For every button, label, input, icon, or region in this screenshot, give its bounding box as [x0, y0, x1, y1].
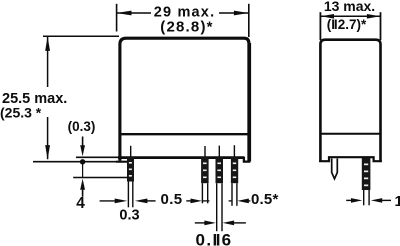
terminal pin 1 (hatched) — [127, 157, 134, 182]
label 13 max. — [324, 0, 375, 14]
side view right terminal (hatched) — [362, 158, 371, 190]
label 25.5 max. — [0, 87, 69, 117]
terminal-end extension line B — [73, 177, 128, 179]
dimension 0.3: right arrow at pin 1 — [135, 199, 156, 204]
dimension 1: right arrow at side terminal — [371, 198, 391, 203]
svg-text:1: 1 — [395, 193, 400, 210]
terminal pin 3 tip edges (long, to 0.16 dimension) — [217, 183, 222, 231]
dimension 25.5 max: vertical dimension line with arrowheads — [45, 36, 50, 159]
terminal pin 1 top line inside base — [130, 146, 132, 157]
terminal pin 4 (hatched) — [231, 157, 238, 183]
dimension 13 max: left extension line — [319, 12, 321, 40]
dimension 4: line from seating plane to terminal-end line — [82, 162, 84, 178]
label 29 max. — [151, 4, 219, 20]
terminal pin 4 tip edges — [232, 183, 237, 206]
svg-text:0.5*: 0.5* — [251, 191, 279, 208]
dimension 0.5*: left-pointing arrow at pin 4 — [229, 199, 251, 204]
dimension 0.16: left arrow at pin 3 tip — [195, 221, 216, 226]
svg-text:(II2.7)*: (II2.7)* — [327, 17, 367, 32]
label 0.16 — [196, 231, 233, 246]
label (0.3) — [68, 119, 96, 134]
relay body front view right edge overdraw — [249, 43, 251, 162]
dimension 13 max: dimension line with arrowheads — [321, 14, 380, 19]
terminal pin 3 (hatched, centre) — [216, 157, 224, 183]
dimension 1: left arrow at side terminal — [346, 198, 362, 203]
side view seam line — [321, 133, 380, 135]
svg-text:4: 4 — [76, 195, 85, 212]
dimension 25.5 max: top extension line — [43, 35, 119, 37]
label (25.3 * — [0, 105, 42, 121]
label 0.3 — [119, 208, 139, 224]
relay body front view outline — [120, 38, 249, 161]
terminal pin 4 top line inside base — [233, 145, 235, 157]
label 1 — [395, 193, 400, 210]
label (12.7)* — [327, 17, 367, 32]
label 0.5 — [160, 191, 182, 208]
dimension 0.16: right arrow at pin 3 tip — [223, 221, 246, 226]
svg-text:0.II6: 0.II6 — [196, 231, 233, 246]
svg-text:(25.3 *: (25.3 * — [0, 105, 42, 121]
dimension 4: junction dot on seating plane — [80, 159, 85, 164]
side view bottom with feet steps — [319, 157, 382, 161]
dimension 29 max: right extension line — [248, 4, 250, 37]
svg-text:13 max.: 13 max. — [324, 0, 375, 14]
label 0.5* — [251, 191, 279, 208]
case bottom line front view (extended left as extension line) — [76, 156, 245, 158]
seating plane / left foot line front view — [33, 161, 128, 163]
dimension 13 max: right extension line — [380, 12, 382, 40]
case/base seam line front view — [121, 133, 247, 135]
side view relay body outline — [319, 12, 382, 162]
side view left terminal (outline, pointed tip) — [332, 159, 338, 179]
terminal pin 3 top line inside base — [218, 146, 220, 157]
side view right terminal tip edges — [364, 190, 369, 205]
svg-text:0.3: 0.3 — [119, 208, 139, 224]
dimension 0.3: left arrow at pin 1 — [100, 199, 128, 204]
dimension 29 max: dimension line with arrowheads — [117, 11, 248, 16]
svg-text:0.5: 0.5 — [160, 191, 182, 208]
right foot step front view — [244, 157, 250, 162]
terminal pin 2 top line inside base — [204, 146, 206, 157]
dimension 0.5: right-pointing arrow at pin 2 — [186, 199, 209, 204]
label 4 — [76, 195, 85, 212]
svg-text:(0.3): (0.3) — [68, 119, 96, 134]
dimension 4: up arrow below terminal-end line — [80, 179, 85, 197]
terminal pin 2 (hatched) — [201, 157, 209, 183]
label (28.8)* — [160, 19, 213, 36]
terminal pin 2 tip edges — [202, 183, 207, 203]
dimension 29 max: left extension line — [116, 4, 118, 32]
svg-text:(28.8)*: (28.8)* — [160, 19, 213, 36]
terminal pin 1 tip edges — [128, 182, 132, 208]
dimension (0.3): down arrow to case bottom — [80, 137, 85, 157]
